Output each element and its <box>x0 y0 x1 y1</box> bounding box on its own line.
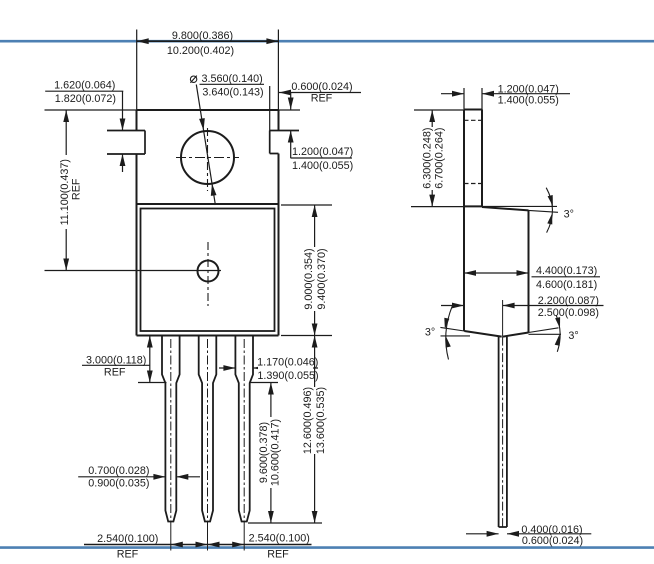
svg-text:REF: REF <box>267 548 289 560</box>
svg-text:3.000(0.118): 3.000(0.118) <box>86 355 146 367</box>
svg-text:9.800(0.386): 9.800(0.386) <box>172 30 233 42</box>
svg-text:1.400(0.055): 1.400(0.055) <box>292 160 353 172</box>
svg-text:11.100(0.437): 11.100(0.437) <box>59 159 71 225</box>
svg-text:2.500(0.098): 2.500(0.098) <box>538 307 599 319</box>
svg-text:10.600(0.417): 10.600(0.417) <box>270 419 282 486</box>
svg-text:3°: 3° <box>425 327 435 339</box>
svg-text:1.620(0.064): 1.620(0.064) <box>54 80 115 92</box>
svg-text:REF: REF <box>311 92 333 104</box>
svg-text:0.600(0.024): 0.600(0.024) <box>522 535 583 547</box>
svg-text:1.390(0.055): 1.390(0.055) <box>257 370 318 382</box>
svg-text:13.600(0.535): 13.600(0.535) <box>315 387 327 454</box>
svg-text:9.000(0.354): 9.000(0.354) <box>303 248 315 309</box>
svg-text:3.640(0.143): 3.640(0.143) <box>202 86 263 98</box>
svg-text:12.600(0.496): 12.600(0.496) <box>302 387 314 454</box>
svg-text:9.400(0.370): 9.400(0.370) <box>316 248 328 309</box>
svg-text:3°: 3° <box>568 330 578 342</box>
svg-text:1.200(0.047): 1.200(0.047) <box>292 146 353 158</box>
svg-text:9.600(0.378): 9.600(0.378) <box>258 422 270 483</box>
svg-text:0.900(0.035): 0.900(0.035) <box>88 478 149 490</box>
svg-text:REF: REF <box>104 366 126 378</box>
svg-text:REF: REF <box>71 178 83 200</box>
svg-text:2.200(0.087): 2.200(0.087) <box>538 295 599 307</box>
svg-text:10.200(0.402): 10.200(0.402) <box>167 45 234 57</box>
svg-text:1.820(0.072): 1.820(0.072) <box>55 93 116 105</box>
svg-text:6.700(0.264): 6.700(0.264) <box>434 128 446 189</box>
svg-text:1.400(0.055): 1.400(0.055) <box>498 95 559 107</box>
svg-text:REF: REF <box>117 548 139 560</box>
svg-text:6.300(0.248): 6.300(0.248) <box>422 128 434 189</box>
svg-text:4.600(0.181): 4.600(0.181) <box>536 279 597 291</box>
svg-text:0.700(0.028): 0.700(0.028) <box>88 465 149 477</box>
svg-text:1.170(0.046): 1.170(0.046) <box>257 357 318 369</box>
svg-text:3°: 3° <box>564 209 574 221</box>
svg-text:3.560(0.140): 3.560(0.140) <box>202 73 263 85</box>
svg-text:4.400(0.173): 4.400(0.173) <box>536 265 597 277</box>
svg-text:2.540(0.100): 2.540(0.100) <box>97 533 158 545</box>
svg-text:2.540(0.100): 2.540(0.100) <box>249 533 310 545</box>
